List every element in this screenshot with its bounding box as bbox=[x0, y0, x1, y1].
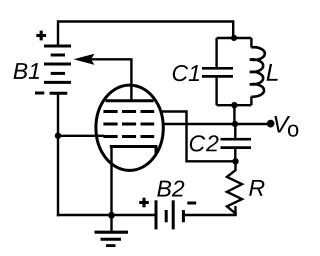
wire cathode lead bbox=[110, 147, 112, 216]
battery B2 bbox=[156, 200, 183, 229]
terminal Vo bbox=[267, 120, 275, 128]
wire C2 bottom lead bbox=[234, 149, 236, 161]
B1 plus sign bbox=[36, 31, 46, 41]
node tank top bbox=[231, 35, 237, 41]
node grid3/B1 junction bbox=[55, 133, 61, 139]
label L bbox=[267, 64, 278, 81]
B1 minus sign bbox=[35, 92, 44, 95]
tube cathode bbox=[110, 147, 156, 155]
wire B1 negative lead down left side bbox=[57, 93, 59, 216]
label B2 bbox=[157, 180, 184, 196]
capacitor C1 bbox=[202, 68, 233, 76]
wire top rail bbox=[58, 22, 233, 39]
wire C1 leads bbox=[215, 38, 217, 67]
wire tank bottom rail bbox=[217, 104, 252, 106]
wire B2 right lead to resistor bbox=[185, 206, 236, 215]
node tank bottom bbox=[231, 102, 237, 108]
label C1 bbox=[173, 65, 199, 81]
tube plate bbox=[106, 99, 154, 102]
wire bottom ground rail bbox=[57, 214, 155, 216]
wire tank top rail bbox=[217, 37, 252, 39]
tube grid row 2 bbox=[103, 123, 154, 126]
wire plate lead and arrow shaft bbox=[86, 59, 131, 100]
label R bbox=[249, 180, 264, 196]
wire L leads bbox=[250, 38, 252, 48]
label B1 bbox=[14, 63, 39, 79]
resistor R bbox=[227, 161, 242, 215]
tube envelope U1 bbox=[96, 85, 163, 170]
inductor L bbox=[250, 47, 265, 96]
wire grid1 lead to C2 bottom bbox=[160, 112, 236, 162]
node cathode/ground junction bbox=[108, 212, 115, 219]
wire grid3 lead left bbox=[58, 135, 105, 137]
ground bbox=[110, 215, 112, 231]
arrow tap into B1 bbox=[74, 54, 95, 65]
tube grid row 1 bbox=[103, 110, 154, 113]
B2 minus sign bbox=[187, 202, 196, 205]
wire B1 positive lead bbox=[57, 20, 59, 46]
tube grid row 3 bbox=[103, 135, 154, 138]
wire tank bottom to Vo node to C2 bbox=[233, 105, 235, 124]
node C2/R junction bbox=[232, 158, 238, 164]
B2 plus sign bbox=[139, 198, 149, 208]
battery B1 bbox=[44, 46, 71, 93]
wire grid2 lead to Vo node bbox=[162, 123, 235, 125]
label C2 bbox=[190, 135, 219, 151]
capacitor C2 bbox=[221, 139, 252, 147]
node Vo tap bbox=[232, 121, 238, 127]
label Vo bbox=[274, 116, 290, 133]
wire Vo tap bbox=[235, 123, 267, 125]
